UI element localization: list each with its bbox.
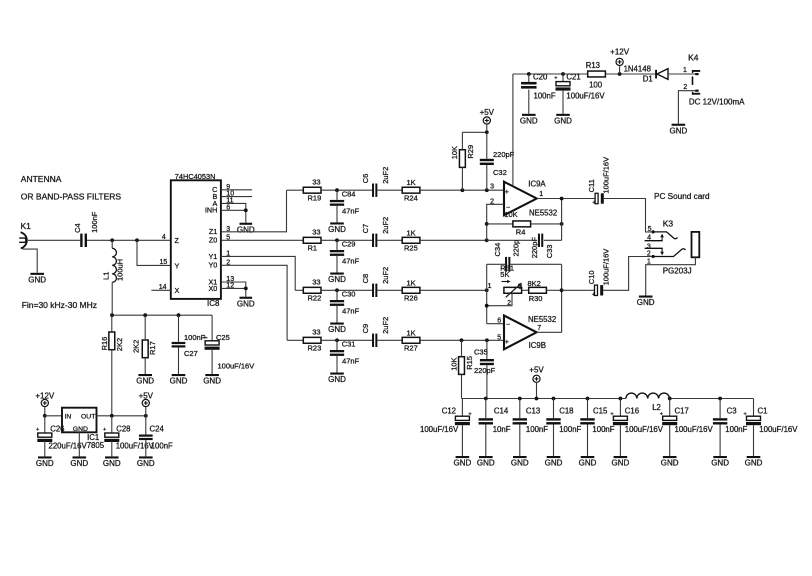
svg-text:GND: GND xyxy=(28,275,46,284)
svg-text:100nF: 100nF xyxy=(725,425,747,434)
svg-text:2K2: 2K2 xyxy=(115,338,124,351)
value 100uF/16V of C16 xyxy=(625,425,664,434)
label R30 xyxy=(529,294,543,303)
svg-text:R26: R26 xyxy=(404,294,418,303)
node junction C21 xyxy=(561,72,565,76)
value 47nF of C31 xyxy=(342,357,360,366)
svg-text:GND: GND xyxy=(136,377,154,386)
label C29 xyxy=(342,240,356,249)
inductor L2 xyxy=(626,393,670,398)
svg-text:GND: GND xyxy=(520,116,538,125)
text DC 12V/100mA xyxy=(689,98,745,107)
label C4 xyxy=(73,223,82,233)
label C1 xyxy=(758,406,768,415)
value 2uF2 of C9 xyxy=(381,317,390,334)
label C10 xyxy=(587,270,596,284)
svg-text:GND: GND xyxy=(511,459,529,468)
wire IC8 pin 9 stub xyxy=(221,189,252,191)
node junction C27 top xyxy=(177,313,181,317)
wire IC9A pin2 xyxy=(487,204,504,240)
label 10K of R4 xyxy=(504,210,517,219)
value 100uF/16V of C21 xyxy=(566,92,605,101)
value 47nF of C84 xyxy=(342,207,360,216)
wire C33 to output node xyxy=(544,199,562,241)
svg-text:100: 100 xyxy=(589,81,603,90)
pin 15 Y of IC8 xyxy=(151,259,179,270)
svg-text:R1: R1 xyxy=(308,244,318,253)
svg-text:X: X xyxy=(175,286,180,295)
pin 4 contact of K3 xyxy=(645,234,664,241)
label C31 xyxy=(342,340,356,349)
svg-text:IN: IN xyxy=(65,413,72,420)
value 100nF of C24 xyxy=(151,442,173,451)
label D1 xyxy=(643,74,653,83)
wire IC1 OUT +5V rail xyxy=(97,415,146,417)
node junction pin6 xyxy=(244,208,248,212)
label C30 xyxy=(342,290,356,299)
svg-text:C32: C32 xyxy=(493,168,507,177)
svg-text:GND: GND xyxy=(170,377,188,386)
svg-text:R16: R16 xyxy=(100,337,109,351)
svg-text:C28: C28 xyxy=(116,424,130,433)
node junction +5V bottom xyxy=(535,397,539,401)
svg-text:100nF: 100nF xyxy=(526,425,548,434)
svg-text:2uF2: 2uF2 xyxy=(381,317,390,334)
node junction C26 xyxy=(43,414,47,418)
svg-text:GND: GND xyxy=(711,459,729,468)
ground at K1 xyxy=(28,273,46,285)
label 1N4148 of D1 xyxy=(624,65,651,74)
svg-text:PC Sound card: PC Sound card xyxy=(654,192,710,201)
svg-text:C84: C84 xyxy=(342,190,356,199)
capacitor C29 47nF xyxy=(330,240,344,272)
resistor R22 33 xyxy=(303,278,321,303)
node junction +12V xyxy=(618,72,622,76)
pin OUT label of IC1 xyxy=(81,413,95,420)
svg-text:C17: C17 xyxy=(675,406,689,415)
svg-text:+12V: +12V xyxy=(35,391,55,400)
svg-text:10nF: 10nF xyxy=(493,425,511,434)
capacitor C30 47nF xyxy=(330,290,344,322)
svg-text:+5V: +5V xyxy=(480,108,495,117)
value 2uF2 of C6 xyxy=(381,167,390,184)
pin 6 label INH of IC8 xyxy=(205,204,230,214)
pin 3 label of IC9A xyxy=(490,184,494,191)
text OR BAND-PASS FILTERS xyxy=(21,191,122,201)
label C9 xyxy=(361,324,370,334)
ground at C13 xyxy=(511,456,529,468)
wire IC8 pin 14 stub xyxy=(151,289,170,291)
text ANTENNA xyxy=(21,174,62,184)
svg-text:+: + xyxy=(660,412,663,418)
label L1 xyxy=(102,272,111,280)
capacitor C18 100nF xyxy=(546,399,560,457)
svg-text:ANTENNA: ANTENNA xyxy=(21,174,62,184)
value 47nF of C29 xyxy=(342,257,360,266)
power +12V top xyxy=(610,48,630,74)
capacitor C16 100uF/16V xyxy=(610,399,628,457)
svg-text:OR BAND-PASS FILTERS: OR BAND-PASS FILTERS xyxy=(21,191,122,201)
svg-text:+: + xyxy=(592,292,595,298)
label 7805 xyxy=(87,441,105,450)
svg-text:GND: GND xyxy=(328,275,346,284)
svg-text:R19: R19 xyxy=(308,194,322,203)
svg-text:33: 33 xyxy=(312,178,320,187)
wire K3 pin5 lever xyxy=(652,230,678,238)
svg-text:100nF: 100nF xyxy=(90,211,99,233)
label PG203J xyxy=(663,267,692,276)
svg-text:C1: C1 xyxy=(758,406,768,415)
node junction C17 xyxy=(668,397,672,401)
svg-text:R15: R15 xyxy=(465,356,474,370)
node junction R4 right xyxy=(560,222,564,226)
svg-text:GND: GND xyxy=(328,325,346,334)
svg-text:R24: R24 xyxy=(404,194,418,203)
value 100 of R13 xyxy=(589,81,603,90)
wire K3 pin2 lever xyxy=(652,249,686,258)
node junction R17 top xyxy=(143,313,147,317)
svg-text:2: 2 xyxy=(647,251,651,258)
capacitor C25 100uF xyxy=(203,315,219,374)
svg-text:GND: GND xyxy=(237,225,255,234)
svg-text:+: + xyxy=(103,427,106,433)
svg-text:33: 33 xyxy=(312,328,320,337)
wire C7 to R25 xyxy=(377,239,402,241)
svg-text:47nF: 47nF xyxy=(342,357,360,366)
svg-text:15: 15 xyxy=(160,259,168,266)
svg-text:GND: GND xyxy=(36,459,54,468)
wire bias rail xyxy=(112,314,212,316)
node junction +5V branch xyxy=(485,130,489,134)
node junction wiper xyxy=(485,304,489,308)
capacitor C32 220pF xyxy=(480,132,494,190)
pin 9 label C of IC8 xyxy=(212,184,230,194)
node junction C30 xyxy=(335,288,339,292)
label C13 xyxy=(526,406,540,415)
power +5V bottom xyxy=(529,365,544,398)
svg-text:100uF/16V: 100uF/16V xyxy=(218,362,255,371)
value 100uF/16V of C12 xyxy=(420,425,459,434)
svg-text:5: 5 xyxy=(648,226,652,233)
pin IN label of IC1 xyxy=(65,413,72,420)
wire row2 to IC9A feedback node xyxy=(420,239,487,241)
svg-text:GND: GND xyxy=(545,459,563,468)
label C34 xyxy=(493,243,502,257)
svg-text:100nF: 100nF xyxy=(534,92,556,101)
label R13 xyxy=(586,61,600,70)
svg-text:100uF/16V: 100uF/16V xyxy=(675,425,714,434)
svg-text:GND: GND xyxy=(203,377,221,386)
label R31 of potentiometer xyxy=(500,264,514,273)
ground at C26 xyxy=(36,456,54,468)
node junction Y-branch xyxy=(135,238,139,242)
svg-text:R29: R29 xyxy=(466,145,475,159)
svg-text:1K: 1K xyxy=(407,178,416,187)
wire row R19 input xyxy=(287,189,304,191)
wire IC8 pin 13 to X0 xyxy=(221,282,246,288)
wire IC9A output xyxy=(537,198,596,200)
svg-text:R23: R23 xyxy=(308,344,322,353)
svg-text:2uF2: 2uF2 xyxy=(381,267,390,284)
value 2K2 of R17 xyxy=(132,340,141,353)
wire row3 to IC9B network xyxy=(420,289,487,291)
svg-text:C9: C9 xyxy=(361,324,370,334)
node junction R29 bottom xyxy=(461,188,465,192)
svg-text:GND: GND xyxy=(670,126,688,135)
svg-text:Fin=30 kHz-30 MHz: Fin=30 kHz-30 MHz xyxy=(22,300,97,310)
svg-text:100nF: 100nF xyxy=(151,442,173,451)
resistor R24 1K xyxy=(402,178,420,202)
connector K3 jack xyxy=(647,218,673,265)
wire R31 wiper to pin6 node xyxy=(487,293,512,305)
svg-text:+: + xyxy=(592,200,595,206)
label 10K of R15 xyxy=(449,357,458,370)
svg-text:K4: K4 xyxy=(688,52,699,62)
ground at C24 xyxy=(137,456,155,468)
label C8 xyxy=(361,274,370,284)
value 100nF of C3 xyxy=(725,425,747,434)
node junction L1 top xyxy=(110,238,114,242)
svg-text:L2: L2 xyxy=(652,403,661,412)
svg-text:Y0: Y0 xyxy=(209,261,218,270)
node junction C32 bottom xyxy=(485,188,489,192)
node junction C24 xyxy=(144,414,148,418)
capacitor C10 100uF xyxy=(592,285,603,298)
wire IC1 GND to ground xyxy=(78,432,80,456)
svg-text:GND: GND xyxy=(454,459,472,468)
label C35 xyxy=(474,348,488,357)
svg-text:4: 4 xyxy=(162,234,166,241)
wire IC9B left vertical xyxy=(486,264,488,323)
svg-text:R25: R25 xyxy=(404,244,418,253)
wire R15 to +5V rail xyxy=(461,340,463,398)
ground at C84 xyxy=(328,222,346,234)
capacitor C33 220pF xyxy=(538,234,543,247)
pin 2 label Y0 of IC8 xyxy=(209,259,231,269)
node junction C14 xyxy=(484,397,488,401)
svg-text:+: + xyxy=(744,412,747,418)
pin 1 label Y1 of IC8 xyxy=(209,250,231,260)
svg-text:C29: C29 xyxy=(342,240,356,249)
value 220p of C34 xyxy=(512,240,521,257)
wire IC8 pin 3 Z1 to row1 xyxy=(221,190,287,232)
svg-text:100uF/16V: 100uF/16V xyxy=(759,425,798,434)
svg-text:C16: C16 xyxy=(625,406,639,415)
svg-text:47nF: 47nF xyxy=(342,257,360,266)
value 100nF of C20 xyxy=(534,92,556,101)
ground at C17 xyxy=(661,456,679,468)
wire R17 to ground xyxy=(144,315,146,374)
svg-text:GND: GND xyxy=(103,459,121,468)
svg-text:GND: GND xyxy=(73,426,88,433)
svg-text:+: + xyxy=(203,335,206,341)
ground at C14 xyxy=(477,456,495,468)
capacitor C27 100nF xyxy=(172,315,186,374)
svg-text:L1: L1 xyxy=(102,272,111,280)
value 100uF/16V of C10 xyxy=(601,249,610,286)
wire R13 to D1 xyxy=(605,73,655,75)
svg-text:−: − xyxy=(506,322,510,329)
wire C10 to K3 pin2 xyxy=(603,257,653,291)
svg-text:Y: Y xyxy=(175,261,180,270)
svg-text:PG203J: PG203J xyxy=(663,267,692,276)
potentiometer R31 wiper arrow xyxy=(506,283,522,298)
svg-text:C15: C15 xyxy=(593,406,608,415)
label IC8 xyxy=(207,299,220,308)
svg-text:6: 6 xyxy=(497,317,501,324)
wire +12V to IC1 xyxy=(45,415,62,417)
value 2uF2 of C7 xyxy=(381,217,390,234)
label C27 xyxy=(184,349,198,358)
svg-text:100uF/16V: 100uF/16V xyxy=(601,249,610,286)
wire C4 to IC8 pin Z xyxy=(87,239,171,241)
svg-text:100uF/16V: 100uF/16V xyxy=(116,442,155,451)
ground at C16 xyxy=(612,456,630,468)
node junction C31 xyxy=(335,338,339,342)
ground at C15 xyxy=(579,456,597,468)
svg-text:2K2: 2K2 xyxy=(132,340,141,353)
svg-text:GND: GND xyxy=(579,459,597,468)
svg-text:47nF: 47nF xyxy=(342,207,360,216)
label C33 xyxy=(545,245,554,259)
capacitor C1 100uF/16V xyxy=(744,399,762,457)
wire IC8 pin 6 to ground xyxy=(221,210,246,222)
svg-text:GND: GND xyxy=(328,225,346,234)
svg-text:C11: C11 xyxy=(587,179,596,192)
ground at C29 xyxy=(328,273,346,285)
ground at IC8 X pins xyxy=(237,297,255,309)
resistor R26 1K xyxy=(402,278,420,302)
op-amp IC9B NE5532 xyxy=(504,316,537,350)
ground at C18 xyxy=(545,456,563,468)
label R16 xyxy=(100,337,109,351)
svg-text:GND: GND xyxy=(637,298,655,307)
svg-text:1K: 1K xyxy=(407,278,416,287)
value 220pF of C32 xyxy=(493,150,515,159)
value 220pF of C33 xyxy=(530,237,539,259)
svg-text:GND: GND xyxy=(745,459,763,468)
svg-text:33: 33 xyxy=(312,278,320,287)
label C24 xyxy=(150,424,165,433)
ground at C28 xyxy=(103,456,121,468)
svg-text:5K: 5K xyxy=(500,270,509,279)
svg-text:NE5532: NE5532 xyxy=(528,315,556,324)
capacitor C34 220p xyxy=(505,257,510,272)
svg-text:K1: K1 xyxy=(21,221,32,231)
svg-text:8K2: 8K2 xyxy=(528,279,541,288)
wire R4 to output node xyxy=(531,223,562,225)
wire R29 to row1 xyxy=(461,167,463,190)
svg-text:C30: C30 xyxy=(342,290,356,299)
capacitor C3 100nF xyxy=(713,399,727,457)
svg-text:C14: C14 xyxy=(494,406,509,415)
pin 7 label of IC9B xyxy=(537,325,541,332)
svg-text:10K: 10K xyxy=(504,210,517,219)
svg-text:NE5532: NE5532 xyxy=(529,208,557,217)
capacitor C84 47nF xyxy=(330,190,344,222)
wire IC8 pin 12 to ground xyxy=(221,288,246,296)
label C28 xyxy=(116,424,130,433)
svg-text:220uF/16V: 220uF/16V xyxy=(49,442,88,451)
wire R16 to +5V rail xyxy=(111,315,113,416)
label NE5532 of IC9B xyxy=(528,315,556,324)
wire IC8 pin 2 Y0 to row4 xyxy=(221,265,287,340)
svg-text:100nF: 100nF xyxy=(592,425,614,434)
pin 6 label of IC9B xyxy=(497,317,501,324)
svg-text:C33: C33 xyxy=(545,245,554,259)
wire K1 to C4 xyxy=(28,239,80,241)
svg-text:C8: C8 xyxy=(361,274,370,284)
node junction C15 xyxy=(586,397,590,401)
svg-text:C13: C13 xyxy=(526,406,540,415)
label R29 xyxy=(466,145,475,159)
pin GND label of IC1 xyxy=(73,426,88,433)
label C6 xyxy=(361,174,370,184)
label C7 xyxy=(361,224,370,234)
ground at R17 xyxy=(136,374,154,386)
wire IC9B pin6 xyxy=(487,323,504,325)
svg-text:C12: C12 xyxy=(442,406,456,415)
wire IC9B output xyxy=(537,331,562,333)
text Fin=30 kHz-30 MHz xyxy=(22,300,97,310)
svg-text:IC8: IC8 xyxy=(207,299,220,308)
svg-text:2uF2: 2uF2 xyxy=(381,167,390,184)
svg-text:1K: 1K xyxy=(407,228,416,237)
svg-text:10K: 10K xyxy=(449,357,458,370)
connector K1 antenna input xyxy=(19,221,31,248)
ground at C30 xyxy=(328,323,346,335)
wire row4 to IC9B pin5 xyxy=(420,339,504,341)
wire K1 shield to ground xyxy=(23,249,38,273)
svg-text:+: + xyxy=(505,189,509,196)
svg-text:+12V: +12V xyxy=(610,48,630,57)
ground at C31 xyxy=(328,373,346,385)
svg-text:1: 1 xyxy=(683,67,687,74)
svg-text:R27: R27 xyxy=(404,344,418,353)
svg-text:GND: GND xyxy=(554,116,572,125)
svg-text:+: + xyxy=(610,412,613,418)
svg-text:GND: GND xyxy=(477,459,495,468)
svg-text:100uF/16V: 100uF/16V xyxy=(420,425,459,434)
label 8K2 of R30 xyxy=(528,279,541,288)
capacitor C11 100uF xyxy=(592,193,603,206)
svg-text:220pF: 220pF xyxy=(493,150,515,159)
ground at K4 xyxy=(670,124,688,136)
connector K4 xyxy=(683,52,700,94)
wire R23 to C9 xyxy=(321,339,372,341)
svg-text:C3: C3 xyxy=(727,406,737,415)
value 47nF of C30 xyxy=(342,307,360,316)
power +5V left xyxy=(139,391,154,416)
label C14 xyxy=(494,406,509,415)
svg-text:C24: C24 xyxy=(150,424,165,433)
wire to IC8 pin 15 xyxy=(137,240,171,265)
svg-text:+5V: +5V xyxy=(139,391,154,400)
resistor R13 100 xyxy=(588,71,606,77)
ground at IC8 INH xyxy=(237,223,255,235)
wire R31 to R30 xyxy=(522,289,529,291)
node junction C3 xyxy=(718,397,722,401)
wire row R1 input xyxy=(221,239,303,241)
value 100uF/16V of C28 xyxy=(116,442,155,451)
pin 5 label Z0 of IC8 xyxy=(209,234,230,244)
value 100nF of C15 xyxy=(592,425,614,434)
label IC9A xyxy=(528,180,546,189)
value 100nF of C4 xyxy=(90,211,99,233)
svg-text:D1: D1 xyxy=(643,74,653,83)
capacitor C26 220uF xyxy=(36,416,52,457)
label NE5532 of IC9A xyxy=(529,208,557,217)
